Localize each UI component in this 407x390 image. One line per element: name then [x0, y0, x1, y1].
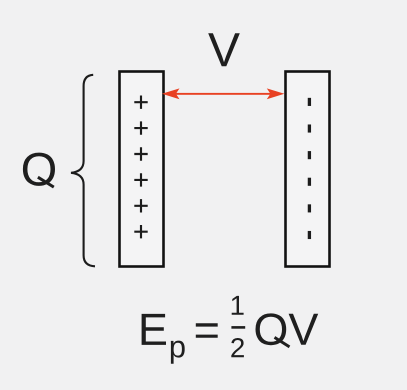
label V (voltage, top) — [208, 33, 240, 66]
curly brace for Q — [71, 75, 95, 266]
E — [142, 314, 166, 345]
red double-headed arrow for V between plates — [162, 88, 285, 99]
capacitor left plate (positive) — [120, 72, 164, 267]
p subscript — [171, 341, 185, 364]
left arrowhead — [162, 88, 180, 99]
plus charges on left plate — [134, 96, 147, 239]
fraction numerator 1 — [232, 296, 244, 315]
capacitor right plate (negative) — [286, 72, 330, 267]
equation E_p = 1/2 QV — [142, 296, 319, 364]
wire: arrow shaft — [172, 93, 272, 95]
fraction bar — [231, 326, 245, 329]
fraction denominator 2 — [231, 338, 244, 357]
minus charges (vertical dashes) on right plate — [308, 98, 311, 239]
right arrowhead — [267, 88, 285, 99]
= sign — [196, 323, 218, 338]
label Q (charge, left) — [23, 153, 55, 186]
QV — [256, 313, 319, 345]
